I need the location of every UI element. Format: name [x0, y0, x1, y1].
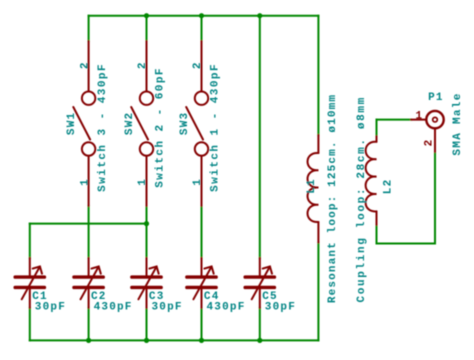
svg-text:1: 1: [79, 179, 91, 186]
svg-text:2: 2: [423, 140, 435, 147]
svg-text:1: 1: [137, 179, 149, 186]
svg-text:SW1: SW1: [66, 112, 78, 135]
svg-text:30pF: 30pF: [265, 301, 296, 313]
svg-text:30pF: 30pF: [152, 301, 183, 313]
svg-text:430pF: 430pF: [207, 301, 246, 313]
svg-text:Switch 3 - 430pF: Switch 3 - 430pF: [97, 63, 109, 192]
svg-text:1: 1: [192, 179, 204, 186]
svg-text:Switch 2 - 60pF: Switch 2 - 60pF: [155, 67, 167, 188]
svg-text:2: 2: [192, 62, 204, 69]
svg-text:2: 2: [79, 62, 91, 69]
svg-text:L1: L1: [306, 178, 318, 194]
svg-text:1: 1: [415, 110, 422, 122]
svg-text:430pF: 430pF: [94, 301, 133, 313]
svg-text:Switch 1 - 430pF: Switch 1 - 430pF: [210, 63, 222, 192]
svg-text:SW3: SW3: [179, 112, 191, 135]
svg-text:Coupling loop: 28cm. ø8mm: Coupling loop: 28cm. ø8mm: [356, 96, 368, 302]
svg-text:Resonant loop: 125cm. ø10mm: Resonant loop: 125cm. ø10mm: [327, 94, 339, 303]
svg-text:2: 2: [137, 62, 149, 69]
svg-text:SW2: SW2: [124, 112, 136, 135]
svg-text:P1: P1: [428, 92, 444, 104]
svg-text:30pF: 30pF: [35, 301, 66, 313]
svg-text:L2: L2: [383, 179, 395, 195]
svg-text:SMA Male: SMA Male: [452, 92, 464, 155]
